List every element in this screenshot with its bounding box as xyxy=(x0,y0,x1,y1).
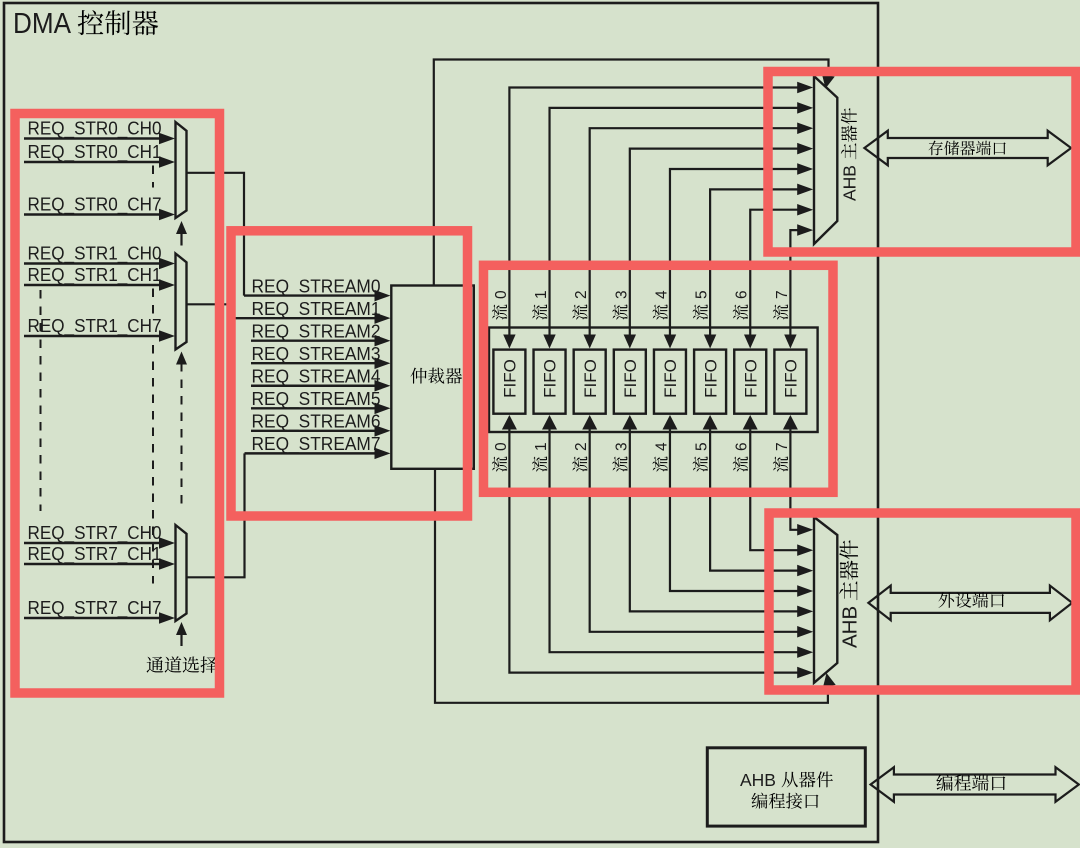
svg-text:6: 6 xyxy=(734,290,751,299)
svg-text:REQ_STR0_CH7: REQ_STR0_CH7 xyxy=(28,194,162,216)
svg-text:DMA: DMA xyxy=(13,8,72,40)
svg-text:REQ_STR0_CH0: REQ_STR0_CH0 xyxy=(28,118,162,140)
svg-text:FIFO: FIFO xyxy=(741,359,760,398)
svg-text:FIFO: FIFO xyxy=(621,359,640,398)
svg-text:FIFO: FIFO xyxy=(501,359,520,398)
svg-text:3: 3 xyxy=(613,442,630,451)
svg-text:REQ_STR0_CH1: REQ_STR0_CH1 xyxy=(28,141,162,163)
svg-text:FIFO: FIFO xyxy=(701,359,720,398)
svg-text:AHB: AHB xyxy=(840,165,860,201)
svg-text:2: 2 xyxy=(573,290,590,299)
svg-text:REQ_STREAM2: REQ_STREAM2 xyxy=(252,321,381,342)
svg-text:7: 7 xyxy=(774,442,791,451)
svg-text:1: 1 xyxy=(533,290,550,299)
svg-text:4: 4 xyxy=(653,290,670,299)
svg-text:REQ_STREAM7: REQ_STREAM7 xyxy=(252,434,381,455)
svg-text:REQ_STR7_CH1: REQ_STR7_CH1 xyxy=(28,543,162,565)
svg-text:FIFO: FIFO xyxy=(661,359,680,398)
svg-text:REQ_STR7_CH0: REQ_STR7_CH0 xyxy=(28,522,162,544)
svg-text:FIFO: FIFO xyxy=(541,359,560,398)
svg-text:REQ_STREAM1: REQ_STREAM1 xyxy=(252,299,381,320)
svg-text:REQ_STREAM3: REQ_STREAM3 xyxy=(252,344,381,365)
svg-text:5: 5 xyxy=(694,290,711,299)
svg-text:FIFO: FIFO xyxy=(581,359,600,398)
svg-text:1: 1 xyxy=(533,442,550,451)
svg-text:6: 6 xyxy=(734,442,751,451)
svg-text:2: 2 xyxy=(573,442,590,451)
svg-text:5: 5 xyxy=(694,442,711,451)
svg-text:3: 3 xyxy=(613,290,630,299)
svg-text:4: 4 xyxy=(653,442,670,451)
svg-text:REQ_STREAM6: REQ_STREAM6 xyxy=(252,412,381,433)
svg-text:0: 0 xyxy=(493,290,510,299)
svg-text:REQ_STREAM0: REQ_STREAM0 xyxy=(252,276,381,297)
svg-text:0: 0 xyxy=(493,442,510,451)
svg-text:REQ_STREAM5: REQ_STREAM5 xyxy=(252,389,381,410)
svg-text:REQ_STR7_CH7: REQ_STR7_CH7 xyxy=(28,597,162,619)
svg-text:AHB: AHB xyxy=(839,606,862,648)
svg-text:REQ_STR1_CH0: REQ_STR1_CH0 xyxy=(28,243,162,265)
svg-text:FIFO: FIFO xyxy=(782,359,801,398)
svg-text:7: 7 xyxy=(774,290,791,299)
svg-text:REQ_STREAM4: REQ_STREAM4 xyxy=(252,367,381,388)
svg-text:AHB: AHB xyxy=(740,770,776,790)
svg-text:REQ_STR1_CH7: REQ_STR1_CH7 xyxy=(28,315,162,337)
svg-text:REQ_STR1_CH1: REQ_STR1_CH1 xyxy=(28,264,162,286)
